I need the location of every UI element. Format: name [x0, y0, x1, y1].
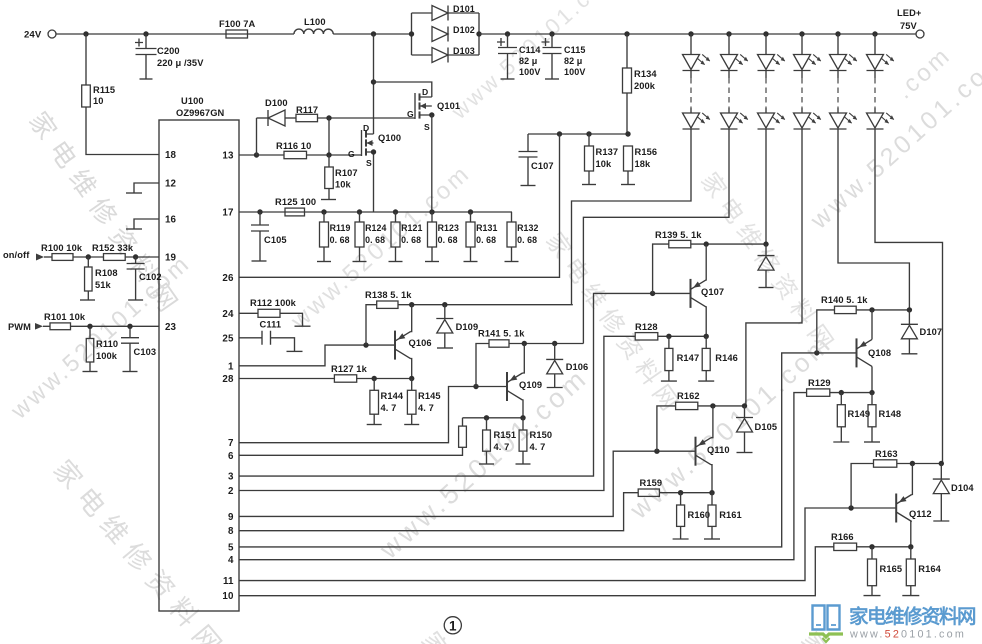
junction C107 node / R156 [625, 131, 630, 136]
svg-text:23: 23 [165, 322, 177, 333]
svg-text:LED+: LED+ [897, 8, 922, 18]
resistor R147 [665, 348, 673, 370]
svg-text:9: 9 [228, 512, 234, 523]
wire on/off to R100 [44, 256, 52, 258]
wire R165 top [871, 547, 873, 559]
wire R116 to Q100 gate [307, 154, 363, 156]
resistor R115 [82, 85, 91, 107]
ground C107 [521, 185, 536, 187]
wire R121 top [395, 212, 397, 222]
svg-text:U100: U100 [181, 96, 204, 106]
ground R107 [321, 199, 336, 201]
wire pin 2 to R128 [239, 336, 635, 490]
wire clamp diode bottom [765, 271, 767, 288]
junction R149 top [839, 390, 844, 395]
wire pin 24 stub [239, 312, 258, 314]
svg-text:82 μ: 82 μ [564, 56, 582, 66]
wire R100 to R152 [73, 256, 104, 258]
wire riser pin13 to D100 [256, 118, 258, 155]
junction rail / LED string 4 [799, 31, 804, 36]
wire R131 top [470, 212, 472, 222]
wire R107 top [328, 155, 330, 167]
resistor R101 [50, 323, 71, 330]
svg-text:Q107: Q107 [701, 287, 724, 297]
LED string 5 lower diode [830, 113, 858, 129]
junction R141 right / Q109 collector [522, 341, 527, 346]
diode D100 [268, 110, 285, 126]
wire D104 bottom [940, 494, 942, 521]
wire LED string 4 mid stub 2 [801, 108, 803, 113]
svg-text:17: 17 [222, 208, 234, 219]
ground R160 [673, 538, 689, 540]
svg-text:C200: C200 [157, 46, 180, 56]
junction rail / C114 [505, 31, 510, 36]
wire LED string 2 mid stub [728, 71, 730, 79]
svg-text:51k: 51k [95, 280, 112, 290]
wire R149 bottom [840, 427, 842, 442]
svg-text:18k: 18k [635, 159, 652, 169]
svg-text:R165: R165 [880, 564, 903, 574]
resistor R119 [320, 222, 329, 247]
wire Q106 emitter drop [411, 359, 412, 379]
wire LED string 2 dashed section [728, 78, 730, 108]
wire R132 bottom [511, 247, 513, 262]
wire D107 stem [908, 310, 910, 324]
svg-text:C107: C107 [531, 161, 554, 171]
capacitor C103 [121, 338, 139, 344]
wire C200 bottom [145, 55, 147, 80]
wire string 5 return [838, 129, 909, 310]
ground R110 [83, 371, 98, 373]
wire R163 right to D104 node [897, 463, 942, 465]
wire R110 bottom [89, 362, 91, 372]
svg-text:R124: R124 [365, 223, 386, 233]
wire R145 top [411, 379, 413, 391]
wire Q101 source down to sense rail [431, 115, 433, 212]
resistor R163 [874, 460, 897, 467]
svg-text:D107: D107 [920, 327, 943, 337]
wire R160 top [680, 493, 682, 505]
resistor R162 [676, 402, 698, 409]
svg-text:www.520101.com: www.520101.com [849, 629, 966, 641]
junction C107 node / pin26 riser [557, 131, 562, 136]
svg-text:220 μ /35V: 220 μ /35V [157, 58, 204, 68]
wire R163 left leg [851, 464, 873, 509]
capacitor C102 [127, 264, 145, 270]
svg-text:Q101: Q101 [437, 101, 460, 111]
wire R129 right to collector node [830, 392, 872, 394]
wire LED string 5 mid stub 2 [837, 108, 839, 113]
plus sign C200 [135, 39, 143, 47]
svg-text:S: S [366, 158, 372, 168]
svg-text:26: 26 [222, 273, 234, 284]
svg-text:R161: R161 [719, 510, 742, 520]
wire R117 to Q101 gate [318, 117, 416, 119]
wire string 1 return [572, 129, 692, 305]
ground R164 [902, 595, 919, 597]
capacitor C200 [136, 49, 157, 55]
transistor Q108 [857, 338, 873, 367]
junction rail / R134 [624, 31, 629, 36]
junction Q107 base / R139 left [650, 291, 655, 296]
svg-text:R132: R132 [517, 223, 538, 233]
wire R107 bottom [328, 189, 330, 200]
wire D105 bottom [744, 432, 746, 452]
junction R146 top / Q107 collector [704, 334, 709, 339]
diode (clamp, string 3) [758, 256, 775, 271]
wire LED string 3 top stub [765, 34, 767, 55]
svg-text:R152 33k: R152 33k [92, 243, 134, 253]
wire R121 bottom [395, 247, 397, 262]
wire R138 right to D109 node [398, 304, 573, 306]
junction R148 top / Q108 collector [869, 390, 874, 395]
wire C111 to ground [271, 338, 295, 351]
svg-text:0. 68: 0. 68 [365, 235, 385, 245]
wire R134 top [626, 34, 628, 68]
resistor R145 [407, 390, 416, 414]
wire LED string 2 mid stub 2 [728, 108, 730, 113]
wire R149 top [840, 393, 842, 405]
ground clamp diode [759, 287, 774, 289]
junction rail / C200 [143, 31, 148, 36]
junction sense rail / R131 [468, 209, 473, 214]
wire LED string 5 top stub [837, 34, 839, 55]
svg-text:2: 2 [228, 486, 234, 497]
wire D106 bottom [554, 374, 556, 388]
resistor R134 [623, 68, 632, 93]
svg-text:18: 18 [165, 150, 177, 161]
wire LED string 4 dashed section [801, 78, 803, 108]
resistor R166 [834, 543, 857, 550]
ground R124 [353, 261, 367, 263]
svg-text:R145: R145 [418, 391, 441, 401]
junction R138 right / Q106 collector [409, 302, 414, 307]
wire pin 26 bus [239, 134, 560, 277]
resistor R110 [86, 339, 94, 363]
diode D101 [432, 6, 448, 21]
svg-text:24: 24 [222, 309, 234, 320]
svg-text:R115: R115 [93, 85, 115, 95]
ground R112 [295, 325, 311, 327]
junction R144 top [372, 376, 377, 381]
svg-text:PWM: PWM [8, 322, 31, 332]
svg-text:R129: R129 [808, 378, 831, 388]
svg-text:R134: R134 [634, 69, 657, 79]
diode D106 [546, 359, 563, 374]
svg-text:L100: L100 [304, 17, 326, 27]
capacitor C107 [519, 152, 538, 158]
wire Q108 emitter riser [871, 310, 873, 340]
wire R165 bottom [871, 586, 873, 596]
svg-text:6: 6 [228, 451, 234, 462]
LED string 1 upper diode [683, 54, 711, 70]
wire D105 stem [744, 406, 746, 418]
svg-text:19: 19 [165, 253, 177, 264]
junction Q110 base / R162 left [654, 449, 659, 454]
ground R151 [479, 463, 494, 465]
svg-text:R110: R110 [96, 339, 118, 349]
svg-text:D109: D109 [456, 322, 479, 332]
wire D107 bottom [908, 339, 910, 354]
svg-text:R144: R144 [381, 391, 404, 401]
wire R144 bottom [373, 414, 375, 424]
resistor R112 [258, 309, 280, 317]
fuse F100 element line [226, 33, 248, 35]
wire C103 top [129, 326, 131, 337]
wire R141 right to D106 node [509, 343, 583, 345]
svg-text:8: 8 [228, 526, 234, 537]
diode D109 [436, 319, 453, 334]
ground C114 [501, 78, 515, 80]
wire R148 bottom [871, 427, 873, 442]
junction R160 top [678, 490, 683, 495]
logo 520101.com [809, 605, 976, 642]
wire LED string 3 dashed section [765, 78, 767, 108]
ground R150 [516, 463, 531, 465]
wire Q107 collector drop [705, 307, 707, 336]
resistor R100 [52, 254, 73, 261]
junction R116/R107 node [326, 152, 331, 157]
svg-text:4. 7: 4. 7 [494, 442, 510, 452]
junction R162 right / Q110 emitter [710, 403, 715, 408]
wire R127 to emitter node [357, 378, 412, 380]
wire pin 10 to R166 [239, 547, 834, 596]
svg-text:10: 10 [222, 591, 234, 602]
wire LED string 1 mid stub 2 [690, 108, 692, 113]
junction diode block right [476, 31, 481, 36]
wire pin 12 stub [134, 183, 159, 193]
wire LED string 3 mid stub [765, 71, 767, 79]
resistor R160 [677, 505, 685, 526]
wire R150 bottom [522, 451, 524, 464]
svg-text:4. 7: 4. 7 [530, 442, 546, 452]
junction D109 [442, 302, 447, 307]
svg-text:F100 7A: F100 7A [219, 19, 256, 29]
transistor Q107 [691, 279, 707, 308]
svg-text:C105: C105 [264, 235, 287, 245]
wire Q106 collector riser [411, 305, 412, 332]
svg-text:25: 25 [222, 333, 234, 344]
wire R108 top [87, 257, 89, 267]
svg-text:4. 7: 4. 7 [381, 403, 397, 413]
ground R132 [505, 261, 519, 263]
capacitor C111 (series) [262, 331, 271, 345]
svg-text:G: G [348, 149, 355, 159]
resistor R123 [428, 222, 437, 247]
svg-text:C111: C111 [260, 320, 282, 330]
svg-text:100V: 100V [519, 67, 540, 77]
wire LED string 5 mid stub [837, 71, 839, 79]
svg-text:R160: R160 [688, 510, 711, 520]
wire C107 top [527, 134, 529, 152]
wire Q100 drain riser [373, 34, 375, 134]
transistor Q109 [507, 372, 523, 401]
junction diode block left [409, 31, 414, 36]
arrow on/off input [36, 254, 44, 261]
wire C102 top [135, 257, 137, 264]
terminal 24V [48, 30, 56, 38]
LED string 3 lower diode [758, 113, 786, 129]
wire R123 bottom [431, 247, 433, 262]
svg-text:0. 68: 0. 68 [476, 235, 496, 245]
wire LED string 6 top stub [874, 34, 876, 55]
svg-text:S: S [424, 122, 430, 132]
junction R140 right / Q108 emitter [869, 307, 874, 312]
ground R108 [80, 299, 95, 301]
wire pin 16 stub [134, 219, 159, 229]
wire pin 11 to Q112 base [239, 508, 896, 581]
LED string 3 upper diode [758, 54, 786, 70]
wire R151 bottom [486, 451, 488, 464]
wire R139 left leg [653, 244, 669, 293]
wire clamp diode stem [765, 244, 767, 256]
wire D100 left stub [257, 117, 269, 119]
svg-text:R159: R159 [640, 478, 663, 488]
svg-text:Q108: Q108 [868, 348, 891, 358]
wire R162 left leg [657, 406, 676, 451]
svg-text:R125 100: R125 100 [275, 197, 316, 207]
wire C107 bottom [527, 157, 529, 186]
wire diode block left vertical [411, 13, 413, 55]
transistor Q112 [896, 494, 912, 523]
wire LED string 6 mid stub [874, 71, 876, 79]
wire pin 1 to Q106 base [239, 345, 395, 366]
ground D106 [547, 387, 563, 389]
resistor R141 [489, 340, 509, 347]
junction Q101 source corner [429, 112, 434, 117]
wire R124 bottom [359, 247, 361, 262]
svg-text:4: 4 [228, 555, 234, 566]
fuse F100 body [226, 30, 248, 38]
wire R160 bottom [680, 526, 682, 539]
svg-text:R101 10k: R101 10k [44, 312, 86, 322]
wire D103 right stub [448, 54, 479, 56]
ground D109 [437, 347, 453, 349]
inductor L100 [294, 29, 333, 34]
svg-text:16: 16 [165, 215, 177, 226]
resistor R159 [638, 489, 659, 496]
wire LED string 6 mid stub 2 [874, 108, 876, 113]
svg-text:R150: R150 [530, 430, 553, 440]
resistor R125 [285, 208, 305, 216]
svg-text:R117: R117 [296, 105, 318, 115]
wire pin 7 to Q109 base [239, 387, 507, 443]
svg-text:1: 1 [449, 619, 457, 634]
svg-text:家电维修资料网: 家电维修资料网 [849, 605, 976, 628]
wire C107 node horizontal [528, 133, 628, 135]
wire rail diode block to 75V terminal [479, 33, 917, 35]
wire R162 right to D105 node [698, 405, 746, 407]
resistor R129 [807, 389, 830, 396]
wire Q100 source down to sense rail [373, 152, 375, 212]
svg-text:Q100: Q100 [378, 133, 401, 143]
junction R163 right / Q112 emitter [910, 461, 915, 466]
ground D107 [901, 353, 917, 355]
diode D103 [432, 48, 448, 63]
IC U100 OZ9967GN box [159, 120, 239, 611]
svg-text:R163: R163 [875, 449, 898, 459]
junction D107 / string5 [907, 307, 912, 312]
wire R132 top [511, 212, 513, 222]
resistor R116 [284, 151, 307, 158]
wire LED string 1 dashed section [690, 78, 692, 108]
ground R123 [425, 261, 439, 263]
wire R150 top [522, 418, 524, 430]
wire R119 top [323, 212, 325, 222]
transistor Q110 [696, 437, 712, 466]
wire R124 top [359, 212, 361, 222]
junction R145 top / Q106 emitter [409, 376, 414, 381]
wire R128 right to collector node [658, 335, 706, 337]
LED string 1 lower diode [683, 113, 711, 129]
junction R147 top [666, 334, 671, 339]
junction sense rail / R119 [321, 209, 326, 214]
wire PWM to R101 [43, 325, 50, 327]
svg-text:C102: C102 [139, 272, 162, 282]
ground C200 [140, 78, 153, 80]
wire C105 bottom [259, 231, 261, 261]
wire rail F100 to L100 [248, 33, 295, 35]
junction rail / C115 [549, 31, 554, 36]
resistor R152 [104, 254, 126, 261]
junction Q100 drain line / Q101 drain branch [371, 79, 376, 84]
junction rail / LED string 5 [835, 31, 840, 36]
wire gate tie vertical [328, 118, 330, 155]
svg-text:C114: C114 [519, 45, 540, 55]
LED string 4 lower diode [794, 113, 822, 129]
junction R151 top [484, 415, 489, 420]
resistor R148 [868, 405, 876, 427]
wire R164 top [910, 547, 912, 559]
svg-text:D106: D106 [566, 362, 589, 372]
svg-text:10k: 10k [596, 159, 613, 169]
svg-text:R138 5. 1k: R138 5. 1k [365, 290, 412, 300]
junction Q108 base / R140 left [814, 350, 819, 355]
junction D106 [552, 341, 557, 346]
svg-text:R108: R108 [95, 268, 118, 278]
wire C115 top [551, 34, 553, 48]
svg-text:R119: R119 [330, 223, 351, 233]
ground R144 [367, 424, 382, 426]
ground R149 [833, 441, 849, 443]
ground D105 [737, 452, 753, 454]
svg-text:D100: D100 [265, 98, 288, 108]
wire pin 5 to Q108 base [239, 353, 857, 547]
svg-text:10: 10 [93, 96, 104, 106]
svg-text:D: D [363, 123, 369, 133]
junction D105 / string4 [742, 403, 747, 408]
junction Q109 base / R141 left [473, 384, 478, 389]
wire R112 to ground [280, 313, 303, 325]
plus sign C115 [542, 38, 550, 46]
svg-text:R151: R151 [494, 430, 517, 440]
wire C115 bottom [551, 54, 553, 80]
ground R145 [404, 424, 419, 426]
LED string 2 lower diode [721, 113, 749, 129]
svg-text:C103: C103 [134, 347, 157, 357]
page number circle 1 [444, 617, 461, 634]
junction rail / LED string 1 [688, 31, 693, 36]
transistor Q101 (MOSFET) [415, 93, 432, 119]
LED string 6 upper diode [867, 54, 895, 70]
wire C102 bottom [135, 269, 137, 300]
wire R145 bottom [411, 414, 413, 424]
wire pin 17 sense rail [239, 211, 512, 213]
wire Q109 emitter rail [463, 417, 524, 419]
wire D109 stem [444, 305, 446, 319]
svg-text:0. 68: 0. 68 [330, 235, 350, 245]
resistor R108 [85, 267, 93, 291]
